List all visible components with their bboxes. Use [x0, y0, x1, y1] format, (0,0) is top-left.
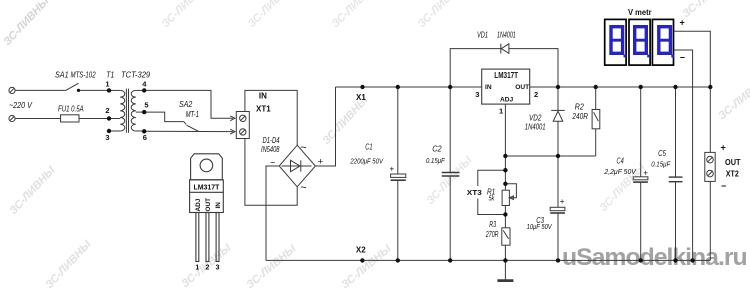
top rail right of LM317 [530, 86, 711, 88]
svg-text:6: 6 [143, 133, 147, 142]
svg-text:2: 2 [206, 265, 210, 272]
stub pin2 [109, 118, 120, 120]
package leg 1 [196, 213, 199, 262]
svg-text:LM317T: LM317T [494, 71, 518, 80]
arrowhead XT1 upper [230, 116, 235, 121]
svg-text:1N4001: 1N4001 [525, 123, 546, 132]
XT2 lower wire [709, 177, 711, 261]
input terminal top [9, 87, 15, 93]
svg-text:TCT-329: TCT-329 [121, 70, 151, 79]
svg-text:C1: C1 [365, 143, 372, 152]
C2 wire [449, 87, 451, 173]
meter digit 2 [634, 27, 650, 58]
svg-text:−: − [680, 53, 685, 63]
svg-text:IN: IN [259, 92, 267, 101]
svg-text:XT1: XT1 [256, 104, 271, 113]
VD2 wire [557, 87, 559, 110]
transformer T1 primary winding [120, 90, 125, 131]
stub pin1 [109, 89, 120, 91]
svg-text:OUT: OUT [205, 198, 212, 212]
C3 wire [557, 156, 559, 207]
arrowhead XT1 lower [230, 129, 235, 134]
resistor R3 [502, 228, 510, 245]
svg-text:5k: 5k [489, 195, 495, 202]
node meter minus bottom [690, 258, 694, 262]
node VD2 C3 [556, 154, 560, 158]
svg-text:XT2: XT2 [726, 169, 739, 178]
diode VD2 [553, 111, 563, 121]
bridge D1-D4 diamond [279, 145, 315, 187]
capacitor C4 plates [633, 177, 648, 180]
svg-text:240R: 240R [572, 112, 588, 121]
package tab [191, 154, 223, 180]
svg-text:LM317T: LM317T [194, 183, 220, 192]
meter plus wire [675, 31, 711, 87]
svg-text:3: 3 [105, 133, 109, 142]
svg-text:−: − [721, 181, 726, 191]
capacitor C3 plates [550, 207, 565, 210]
svg-text:1N4001: 1N4001 [497, 31, 516, 40]
svg-text:+: + [560, 197, 565, 206]
capacitor C5 plates [669, 176, 683, 178]
node wiper [503, 182, 507, 186]
meter digit 3 [658, 27, 674, 58]
svg-text:5: 5 [144, 101, 148, 110]
package body [190, 180, 224, 213]
node R2 top [594, 85, 598, 89]
package leg 2 [206, 213, 209, 262]
SA2 lever [187, 125, 199, 131]
node pin3 [107, 129, 111, 133]
svg-text:270R: 270R [485, 230, 499, 239]
ground bar [497, 279, 513, 282]
svg-text:MT-1: MT-1 [186, 110, 199, 119]
node C4 bottom [639, 258, 643, 262]
svg-text:C2: C2 [432, 144, 442, 153]
svg-text:0.15μF: 0.15μF [651, 159, 670, 168]
svg-text:OUT: OUT [725, 158, 741, 167]
connector XT1 box [236, 112, 249, 139]
node C5 top [673, 85, 677, 89]
svg-text:2: 2 [534, 90, 538, 99]
meter digit box 3 [652, 19, 673, 65]
XT1 screw lower [240, 129, 246, 135]
stub pin6 [136, 130, 144, 132]
top rail X1 [336, 86, 482, 88]
meter minus wire [675, 50, 693, 260]
ADJ horizontal wire [505, 155, 595, 157]
node C2 VD1 [448, 85, 452, 89]
wire pin4 to XT1 upper [144, 90, 233, 118]
switch SA1 lever [66, 83, 79, 90]
node pin6 [142, 129, 146, 133]
R1 wiper hook [505, 184, 516, 198]
svg-text:2,2μF 50V: 2,2μF 50V [603, 167, 636, 176]
svg-text:OUT: OUT [515, 84, 529, 91]
svg-text:VD2: VD2 [529, 113, 542, 122]
node OUT [556, 85, 560, 89]
node XT3 top [503, 168, 507, 172]
svg-text:D1-D4: D1-D4 [263, 136, 281, 145]
XT2 upper wire [709, 87, 711, 156]
svg-text:+: + [643, 168, 648, 177]
svg-text:~220 V: ~220 V [9, 100, 33, 110]
node C4 top [639, 85, 643, 89]
svg-text:3: 3 [216, 265, 220, 272]
connector XT2 box [705, 152, 715, 181]
node ADJ R2 [503, 154, 507, 158]
svg-text:2200μF 50V: 2200μF 50V [350, 157, 384, 166]
meter digit 1 [610, 27, 626, 58]
wire XT1 bottom to bridge [245, 139, 297, 206]
capacitor C1 plates [391, 174, 406, 177]
node gnd [503, 258, 507, 262]
R1 wiper arrowhead [509, 196, 513, 200]
node C5 bottom [673, 258, 677, 262]
node C1 bottom [396, 258, 400, 262]
node XT3 bottom [503, 212, 507, 216]
svg-text:uSamodelkina.ru: uSamodelkina.ru [562, 244, 747, 271]
meter digit box 1 [605, 19, 626, 65]
svg-text:+: + [390, 165, 395, 174]
svg-text:~: ~ [300, 182, 306, 194]
XT1 screw upper [240, 115, 246, 121]
svg-text:IN: IN [485, 84, 492, 91]
svg-text:C5: C5 [658, 149, 666, 158]
stub pin3 [109, 130, 120, 132]
wire R1 to R3 [504, 206, 506, 228]
node meter plus [708, 85, 712, 89]
bridge inner diode [282, 165, 312, 167]
wire pin6 to XT1 lower [144, 130, 233, 132]
bottom rail X2 [266, 259, 710, 261]
node pin5 [142, 110, 146, 114]
LM317 package drawing [190, 154, 224, 262]
regulator U1 LM317T box [482, 69, 530, 104]
diode VD1 [501, 44, 509, 54]
svg-text:10μF 50V: 10μF 50V [527, 222, 553, 231]
node pin2 [107, 116, 111, 120]
wire R3 to rail [504, 245, 506, 260]
wire XT1 top to bridge [245, 90, 297, 145]
svg-text:~: ~ [300, 142, 306, 154]
wire SA1 to pin1 [78, 89, 109, 91]
ADJ vertical wire [504, 104, 506, 190]
voltmeter digit boxes [605, 19, 674, 65]
transformer core [125, 89, 127, 133]
svg-text:X1: X1 [356, 93, 366, 102]
svg-text:−: − [270, 157, 275, 167]
svg-text:3: 3 [475, 90, 479, 99]
capacitor C2 plates [442, 172, 460, 174]
svg-text:0.15μF: 0.15μF [426, 156, 445, 165]
node pin4 [142, 88, 146, 92]
svg-text:X2: X2 [356, 246, 366, 255]
svg-text:ADJ: ADJ [500, 96, 514, 103]
svg-text:IN: IN [215, 202, 222, 209]
wire pin5 to SA2 contact [144, 112, 184, 122]
C4 wire [640, 87, 642, 177]
svg-text:R2: R2 [575, 102, 584, 111]
wire mains top [15, 89, 66, 91]
svg-text:1: 1 [195, 265, 199, 272]
input terminal bottom [9, 115, 15, 121]
svg-text:R3: R3 [489, 220, 496, 229]
node pin1 [107, 88, 111, 92]
package hole [200, 159, 213, 172]
svg-text:V metr: V metr [628, 8, 652, 17]
svg-text:MTS-102: MTS-102 [71, 71, 97, 80]
svg-text:SA2: SA2 [179, 100, 193, 109]
C1 wire [397, 87, 399, 174]
node X2 [360, 258, 364, 262]
svg-text:XT3: XT3 [467, 188, 482, 197]
wire bridge minus down to X2 rail [266, 166, 279, 260]
meter digit box 2 [629, 19, 650, 65]
svg-text:2: 2 [105, 106, 109, 115]
svg-text:+: + [318, 157, 323, 167]
svg-text:IN5408: IN5408 [261, 145, 280, 154]
node C2 bottom [448, 258, 452, 262]
package leg 3 [216, 213, 219, 262]
svg-text:ADJ: ADJ [195, 198, 202, 211]
SA2 contact tick [184, 122, 187, 125]
node C3 bottom [556, 258, 560, 262]
svg-text:VD1: VD1 [477, 31, 488, 40]
transformer T1 secondary winding [131, 90, 136, 131]
R2 wire [595, 87, 597, 110]
svg-text:C4: C4 [617, 157, 625, 166]
fuse FU1 [61, 115, 79, 122]
svg-text:+: + [680, 18, 685, 28]
svg-text:+: + [721, 142, 726, 152]
svg-text:SA1: SA1 [55, 70, 69, 79]
package separator [190, 191, 224, 193]
XT3 bracket [478, 170, 506, 186]
stub pin4 [136, 89, 144, 91]
svg-text:FU1 0.5A: FU1 0.5A [58, 104, 84, 113]
wire bridge plus up to X1 rail [315, 87, 335, 166]
resistor R2 [592, 110, 600, 129]
node X1 [360, 85, 364, 89]
svg-text:1: 1 [105, 80, 109, 89]
R1 pot box [502, 190, 509, 205]
ground stem [504, 260, 506, 280]
XT2 screw upper [707, 156, 714, 163]
wire mains bottom [15, 118, 109, 120]
XT2 screw lower [707, 170, 714, 177]
svg-text:1: 1 [499, 106, 503, 115]
stub pin5 [136, 111, 144, 113]
svg-text:T1: T1 [106, 70, 114, 79]
node SA1 contact [77, 89, 80, 92]
C5 wire [675, 87, 677, 177]
VD1 bypass wire [450, 49, 558, 87]
node C1 top [396, 85, 400, 89]
